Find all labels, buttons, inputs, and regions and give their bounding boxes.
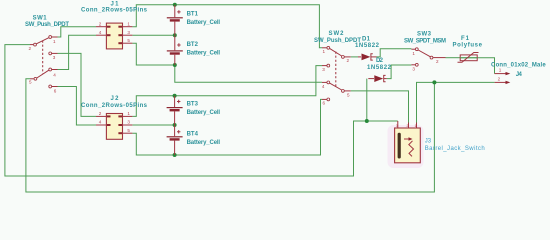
wire D1 cathode to SW3 pin1 [377, 49, 412, 57]
junction BT1+ [173, 3, 177, 7]
svg-text:Conn_2Rows-05Pins: Conn_2Rows-05Pins [81, 8, 148, 14]
svg-text:1: 1 [415, 124, 417, 128]
polyfuse F1 [458, 53, 479, 63]
svg-text:SW3: SW3 [417, 31, 432, 37]
svg-text:Battery_Cell: Battery_Cell [187, 140, 221, 146]
svg-text:D2: D2 [376, 58, 384, 64]
junction BT1-/BT2+ [173, 33, 177, 37]
wire SW1 pin6 to J2 pin4 [58, 87, 97, 126]
svg-text:D1: D1 [362, 36, 371, 42]
wire SW1 pin4 to J1 pin4 [58, 35, 97, 69]
svg-text:1N5822: 1N5822 [355, 43, 380, 49]
svg-text:4: 4 [99, 30, 102, 35]
svg-text:3: 3 [127, 30, 130, 35]
svg-text:Barrel_Jack_Switch: Barrel_Jack_Switch [425, 146, 485, 152]
wire SW1 pin1 to J1 pin2 [58, 27, 97, 37]
diode D2 [368, 75, 387, 82]
wire SW3 pin2 to fuse F1 [446, 57, 461, 59]
switch SW3 [411, 48, 445, 66]
svg-text:BT2: BT2 [187, 42, 199, 48]
svg-text:Conn_2Rows-05Pins: Conn_2Rows-05Pins [81, 103, 148, 109]
svg-text:5: 5 [29, 79, 32, 84]
connector J4 [495, 72, 511, 84]
battery BT4 [167, 125, 183, 155]
svg-text:J2: J2 [111, 96, 120, 102]
connector J1 [96, 23, 132, 49]
svg-text:5: 5 [127, 38, 130, 43]
battery BT2 [167, 35, 183, 65]
diode D1 [358, 54, 377, 61]
switch SW1 [30, 36, 58, 88]
svg-text:SW2: SW2 [329, 31, 345, 37]
svg-text:2: 2 [347, 58, 350, 63]
svg-text:SW_Push_DPDT: SW_Push_DPDT [25, 22, 69, 28]
wire SW2 pin2 to D1 anode [351, 56, 358, 58]
wire SW2 pin5 to J3 pin2 [351, 91, 409, 123]
junction BT3-/BT4+ [173, 123, 177, 127]
svg-text:2: 2 [407, 124, 409, 128]
svg-text:1N5822: 1N5822 [367, 65, 392, 71]
wire J1 pin1 to BT1+ to SW2 pin1 [132, 5, 322, 48]
svg-text:2: 2 [436, 59, 439, 64]
svg-text:2: 2 [498, 76, 501, 81]
svg-text:Battery_Cell: Battery_Cell [187, 20, 221, 26]
wire BT2- to SW2 pin4 [175, 65, 322, 82]
svg-text:3: 3 [127, 120, 130, 125]
svg-text:Battery_Cell: Battery_Cell [187, 110, 221, 116]
svg-text:5: 5 [127, 128, 130, 133]
wire fuse F1 to J4 pin1 [460, 58, 495, 74]
junction D2 anode node [365, 119, 369, 123]
svg-text:1: 1 [412, 51, 415, 56]
svg-text:BT4: BT4 [187, 131, 199, 137]
svg-text:J1: J1 [111, 1, 120, 7]
wire J2 pin1 to BT3+ to SW2 pin3 [132, 66, 322, 117]
svg-text:4: 4 [53, 72, 56, 77]
svg-text:Battery_Cell: Battery_Cell [187, 51, 221, 57]
svg-text:2: 2 [99, 21, 102, 26]
svg-text:2: 2 [29, 46, 32, 51]
junction BT3+ [173, 94, 177, 98]
wire SW1 pin5 ground loop [26, 79, 435, 192]
svg-text:Polyfuse: Polyfuse [452, 43, 482, 49]
svg-text:1: 1 [53, 39, 56, 44]
wire SW1 pin3 to J2 pin2 [58, 53, 97, 116]
svg-text:6: 6 [323, 101, 326, 106]
svg-text:J4: J4 [516, 72, 523, 78]
wire SW1 pin2 loop to J3 pin3 [5, 45, 398, 176]
wire BT4- to SW2 pin6 [175, 99, 322, 155]
svg-text:1: 1 [127, 21, 130, 26]
svg-text:3: 3 [396, 124, 398, 128]
svg-text:SW_SPDT_MSM: SW_SPDT_MSM [404, 39, 446, 45]
wire J1 pin3 to BT1-/BT2+ junction [132, 34, 174, 36]
svg-text:3: 3 [53, 55, 56, 60]
wire D2 cathode to SW3 pin3 [387, 65, 412, 79]
svg-text:3: 3 [322, 67, 325, 72]
svg-text:2: 2 [99, 111, 102, 116]
barrel jack J3 [388, 121, 424, 168]
svg-text:BT1: BT1 [187, 12, 199, 18]
svg-text:SW1: SW1 [33, 15, 48, 21]
svg-text:1: 1 [323, 49, 326, 54]
connector J2 [96, 114, 132, 140]
battery BT3 [167, 96, 183, 125]
svg-text:BT3: BT3 [187, 101, 199, 107]
svg-text:J3: J3 [425, 139, 432, 145]
svg-text:1: 1 [127, 111, 130, 116]
wire ground rail to J4 pin2 and J3 pin1 [417, 82, 495, 122]
junction BT4- [173, 153, 177, 157]
svg-text:4: 4 [322, 84, 325, 89]
svg-text:F1: F1 [461, 36, 470, 42]
wire J2 pin5 to BT4- [132, 133, 174, 155]
battery BT1 [167, 5, 183, 36]
wire J2 pin3 to BT3-/BT4+ junction [132, 124, 174, 126]
wire J1 pin5 to BT2- [132, 43, 174, 65]
svg-text:4: 4 [99, 120, 102, 125]
svg-text:6: 6 [54, 88, 57, 93]
wire D2 anode down to J3 pin3 net [366, 79, 368, 121]
svg-text:3: 3 [412, 66, 415, 71]
switch SW2 [322, 46, 351, 100]
junction BT2- [173, 63, 177, 67]
svg-text:1: 1 [499, 67, 502, 72]
junction ground rail [432, 80, 436, 84]
svg-text:5: 5 [347, 92, 350, 97]
